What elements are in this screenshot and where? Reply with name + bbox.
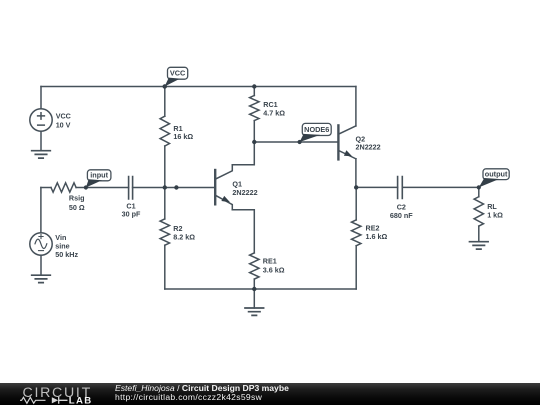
footer black bar xyxy=(0,383,540,405)
resistor RE1 xyxy=(250,253,259,279)
node junction Q2 emitter/RE2/C2 xyxy=(354,185,358,189)
wire Q2 collector to top rail xyxy=(355,87,357,126)
label Q1 value xyxy=(232,180,257,198)
footer line 2: url xyxy=(115,392,262,402)
wire base row: corner to Rsig xyxy=(41,187,51,189)
svg-text:50 Ω: 50 Ω xyxy=(69,203,85,212)
wire C1 to Q1 base xyxy=(133,187,215,189)
svg-text:Rsig: Rsig xyxy=(69,194,85,203)
svg-text:1 kΩ: 1 kΩ xyxy=(487,211,503,220)
label C2 value xyxy=(390,203,413,220)
node junction R1/top rail xyxy=(163,84,167,88)
wire RE2 top lead xyxy=(355,187,357,220)
wire R1 top lead xyxy=(164,87,166,117)
wire Q1 emitter to RE1 xyxy=(232,210,254,253)
svg-text:4.7 kΩ: 4.7 kΩ xyxy=(263,108,285,117)
label C1 value xyxy=(122,202,141,219)
wire top VCC rail xyxy=(41,86,356,88)
wire output row: node to C2 xyxy=(356,186,397,188)
node junction RC1/Q1 collector xyxy=(252,140,256,144)
svg-text:50 kHz: 50 kHz xyxy=(55,250,78,259)
wire Vin source bottom lead to ground xyxy=(40,255,42,275)
voltage source VCC xyxy=(30,109,52,131)
node label NODE6 xyxy=(298,123,332,144)
wire VCC source bottom lead to ground xyxy=(40,131,42,151)
node label VCC xyxy=(163,67,188,88)
resistor RE2 xyxy=(352,220,361,246)
node junction R1/R2/base row xyxy=(163,185,167,189)
wire Rsig to C1 xyxy=(76,187,129,189)
svg-text:30 pF: 30 pF xyxy=(122,210,141,219)
capacitor C2 xyxy=(398,177,403,199)
voltage source Vin sine xyxy=(30,233,52,255)
label RE2 value xyxy=(366,223,388,241)
svg-text:3.6 kΩ: 3.6 kΩ xyxy=(263,265,285,274)
resistor RC1 xyxy=(250,96,259,121)
transistor Q1 2N2222 xyxy=(215,165,232,210)
svg-text:16 kΩ: 16 kΩ xyxy=(173,132,193,141)
wire Q1 collector to node xyxy=(232,142,254,165)
resistor R1 xyxy=(160,116,169,146)
svg-text:1.6 kΩ: 1.6 kΩ xyxy=(366,232,388,241)
resistor RL xyxy=(474,197,483,226)
wire RC1 bottom lead xyxy=(253,121,255,142)
node junction RC1/top rail xyxy=(252,84,256,88)
node label output xyxy=(477,169,510,190)
resistor Rsig xyxy=(51,183,76,192)
svg-text:output: output xyxy=(485,170,508,179)
wire R1 bottom lead xyxy=(164,146,166,188)
label RC1 value xyxy=(263,100,285,118)
wire RL top lead xyxy=(478,187,480,196)
wire Q2 emitter down to output node xyxy=(355,159,357,188)
label R2 value xyxy=(173,224,195,242)
label VCC source value xyxy=(56,112,71,130)
capacitor C1 xyxy=(129,177,133,200)
wire VCC source top lead xyxy=(40,87,42,109)
label Rsig value xyxy=(69,194,85,212)
label Q2 value xyxy=(356,134,381,151)
wire bottom rail xyxy=(165,288,356,290)
ground below Vin source xyxy=(32,275,51,282)
wire RE2 bottom lead xyxy=(355,246,357,289)
wire node row NODE6: RC1 to Q2 base xyxy=(254,141,338,143)
label RE1 value xyxy=(263,257,285,275)
svg-text:2N2222: 2N2222 xyxy=(356,143,381,152)
label Vin source value xyxy=(55,233,78,259)
svg-text:2N2222: 2N2222 xyxy=(232,188,257,197)
label R1 value xyxy=(173,124,193,141)
svg-text:input: input xyxy=(90,171,108,180)
CircuitLab logo xyxy=(0,383,110,405)
resistor R2 xyxy=(160,219,169,245)
wire RE1 ground stub xyxy=(253,289,255,308)
ground below RL xyxy=(470,242,489,249)
label RL value xyxy=(487,202,503,220)
svg-text:VCC: VCC xyxy=(56,112,71,121)
wire C2 to RL xyxy=(402,186,479,188)
ground below VCC source xyxy=(32,151,51,158)
svg-text:NODE6: NODE6 xyxy=(304,125,329,134)
node junction RE1/bottom rail xyxy=(252,287,256,291)
svg-text:10 V: 10 V xyxy=(56,120,71,129)
transistor Q2 2N2222 xyxy=(338,125,356,159)
ground below RE1 xyxy=(245,308,264,315)
wire R2 bottom lead xyxy=(164,245,166,289)
footer line 1: author / title xyxy=(115,383,289,393)
svg-text:LAB: LAB xyxy=(69,395,93,405)
wire RC1 top lead xyxy=(253,87,255,96)
svg-text:VCC: VCC xyxy=(170,69,186,78)
node label input xyxy=(84,170,111,190)
wire left column input branch xyxy=(40,188,42,233)
wire R2 top lead xyxy=(164,188,166,219)
svg-text:8.2 kΩ: 8.2 kΩ xyxy=(173,233,195,242)
node junction base row wire join xyxy=(174,185,178,189)
svg-text:680 nF: 680 nF xyxy=(390,211,413,220)
wire RL bottom lead to ground xyxy=(478,226,480,242)
wire RE1 bottom lead xyxy=(253,279,255,289)
